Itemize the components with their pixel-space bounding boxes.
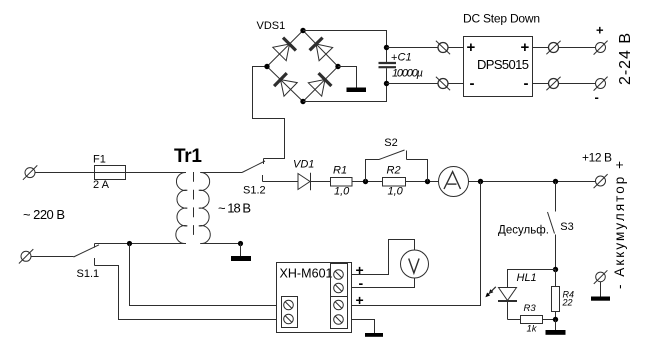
node	[238, 241, 243, 246]
wire	[126, 172, 187, 174]
screw terminal DPS in -	[436, 77, 450, 90]
terminal out -	[594, 77, 608, 105]
svg-text:+: +	[521, 39, 530, 56]
svg-text:Tr1: Tr1	[174, 146, 202, 167]
node	[425, 179, 430, 184]
voltmeter PV1	[401, 250, 429, 278]
wire bridge bottom to minus rail	[303, 84, 387, 102]
svg-text:+: +	[596, 23, 604, 38]
wire	[31, 256, 74, 258]
ammeter PA1	[439, 167, 469, 197]
node bridge bottom	[300, 99, 305, 104]
switch S1.2	[242, 159, 266, 197]
label Desulf	[498, 225, 549, 237]
wire	[448, 83, 464, 85]
wire bridge top to C1 plus rail	[303, 31, 387, 48]
resistor R1	[331, 165, 353, 198]
diode VDS1.1 top-left	[273, 38, 296, 61]
svg-text:C1: C1	[398, 52, 412, 64]
wire S1.2 upper contact to bridge	[253, 67, 285, 159]
node bridge left	[264, 64, 269, 69]
svg-text:DPS5015: DPS5015	[477, 57, 529, 72]
svg-text:1,0: 1,0	[388, 186, 404, 198]
wire	[406, 181, 439, 183]
resistor R4	[552, 270, 575, 320]
bridge rectifier VDS1	[257, 20, 339, 102]
svg-text:DC Step Down: DC Step Down	[463, 11, 540, 25]
ground under XH-M601	[365, 333, 383, 337]
LED arrows	[485, 287, 495, 297]
svg-text:+: +	[356, 292, 364, 308]
terminal +12V	[594, 174, 608, 188]
resistor R3	[521, 303, 556, 335]
node C1 top	[384, 45, 389, 50]
module U1 DPS5015	[464, 37, 533, 97]
terminal out +	[594, 23, 608, 55]
transformer Tr1	[174, 146, 251, 244]
wire rail right of ammeter	[469, 181, 596, 183]
label battery vertical	[612, 161, 627, 289]
label ~220V	[23, 207, 65, 222]
label XH plus bottom	[356, 292, 364, 308]
terminal X1 mains line	[23, 165, 37, 179]
wire	[352, 181, 383, 183]
node bridge top	[300, 28, 305, 33]
svg-text:Десульф.: Десульф.	[498, 225, 549, 237]
svg-text:S3: S3	[560, 221, 573, 233]
svg-text:10000µ: 10000µ	[392, 68, 423, 80]
node	[478, 179, 483, 184]
screw terminal DPS out -	[546, 77, 560, 90]
svg-text:~ 220 В: ~ 220 В	[23, 207, 65, 222]
wire DPS out -	[533, 83, 549, 85]
svg-text:HL1: HL1	[517, 272, 537, 284]
diode VD1	[293, 159, 314, 191]
label XH minus	[359, 275, 364, 291]
wire secondary bottom lead	[200, 243, 240, 245]
wire C1 to DPS input minus	[387, 83, 439, 85]
node	[553, 267, 558, 272]
svg-text:VD1: VD1	[293, 159, 314, 171]
screw terminal DPS out +	[546, 41, 560, 54]
node	[553, 179, 558, 184]
wire C1 to DPS input plus	[387, 47, 439, 49]
LED HL1	[498, 270, 556, 320]
svg-text:-: -	[595, 90, 599, 105]
wire voltmeter top to XH screw1	[352, 240, 415, 275]
node bridge right	[335, 64, 340, 69]
svg-text:- Аккумулятор +: - Аккумулятор +	[612, 161, 627, 289]
label 2-24 V vertical	[617, 33, 634, 85]
screw terminal XH left 2	[284, 314, 294, 324]
wire	[35, 172, 95, 174]
fuse F1	[93, 154, 126, 192]
wire DPS out +	[533, 47, 549, 49]
svg-text:-: -	[359, 275, 364, 291]
svg-text:R3: R3	[524, 303, 537, 314]
diode VDS1.2 top-right	[310, 38, 333, 61]
svg-text:+: +	[467, 39, 476, 56]
screw terminal XH left 1	[284, 300, 294, 310]
node C1 bottom	[384, 81, 389, 86]
switch S3	[548, 182, 574, 270]
screw terminal DPS in +	[436, 41, 450, 54]
wire node to XH-M601 right plus	[352, 182, 481, 306]
svg-text:-: -	[524, 75, 529, 92]
switch S2	[366, 137, 428, 182]
svg-text:+12 В: +12 В	[582, 150, 612, 164]
wire voltmeter bottom to XH screw2	[352, 278, 415, 288]
wire S1.1 lower contact to XH-M601 lower-left input	[95, 266, 277, 320]
node	[363, 179, 368, 184]
wire node to XH-M601 upper-left input	[130, 244, 277, 306]
diode VDS1.3 bottom-left	[274, 73, 297, 96]
label XH plus top	[356, 262, 364, 278]
wire main rail from S1.2	[263, 181, 299, 183]
node	[127, 241, 132, 246]
screw terminal XH right 1	[334, 270, 344, 280]
svg-text:2-24 В: 2-24 В	[617, 33, 634, 85]
svg-text:R2: R2	[387, 165, 401, 177]
svg-text:F1: F1	[93, 154, 106, 166]
label +12V	[582, 150, 612, 164]
svg-text:XH-M601: XH-M601	[280, 266, 333, 280]
svg-text:R1: R1	[333, 165, 347, 177]
terminal X2 mains neutral	[19, 249, 33, 263]
svg-text:22: 22	[562, 297, 573, 307]
svg-text:1,0: 1,0	[334, 186, 350, 198]
screw terminal XH right 4	[334, 315, 344, 325]
ground under R4	[546, 320, 566, 335]
svg-text:1k: 1k	[527, 324, 538, 335]
label DC Step Down	[463, 11, 540, 25]
switch S1.1	[74, 244, 100, 281]
wire 220V bottom lead	[95, 243, 187, 245]
svg-text:VDS1: VDS1	[257, 20, 286, 32]
ground near bridge	[347, 88, 367, 93]
resistor R2	[383, 165, 406, 198]
wire	[559, 47, 596, 49]
wire XH screw4 to ground	[352, 320, 375, 334]
wire	[559, 83, 596, 85]
node	[553, 317, 558, 322]
screw terminal XH right 2	[334, 283, 344, 293]
svg-text:~ 18 В: ~ 18 В	[218, 201, 251, 216]
svg-text:S1.2: S1.2	[243, 185, 266, 197]
terminal battery minus	[591, 270, 610, 300]
svg-text:-: -	[470, 75, 475, 92]
svg-text:2 A: 2 A	[93, 179, 110, 191]
module A1 XH-M601	[277, 263, 352, 333]
diode VDS1.4 bottom-right	[308, 73, 331, 96]
wire	[448, 47, 464, 49]
ground under transformer	[231, 244, 251, 262]
wire bridge right node to ground	[338, 67, 357, 88]
screw terminal XH right 3	[334, 300, 344, 310]
svg-text:S1.1: S1.1	[77, 268, 100, 280]
wire secondary top lead	[200, 172, 242, 174]
svg-text:S2: S2	[384, 137, 397, 149]
capacitor C1	[379, 48, 424, 84]
svg-text:+: +	[391, 52, 397, 64]
wire	[311, 181, 331, 183]
